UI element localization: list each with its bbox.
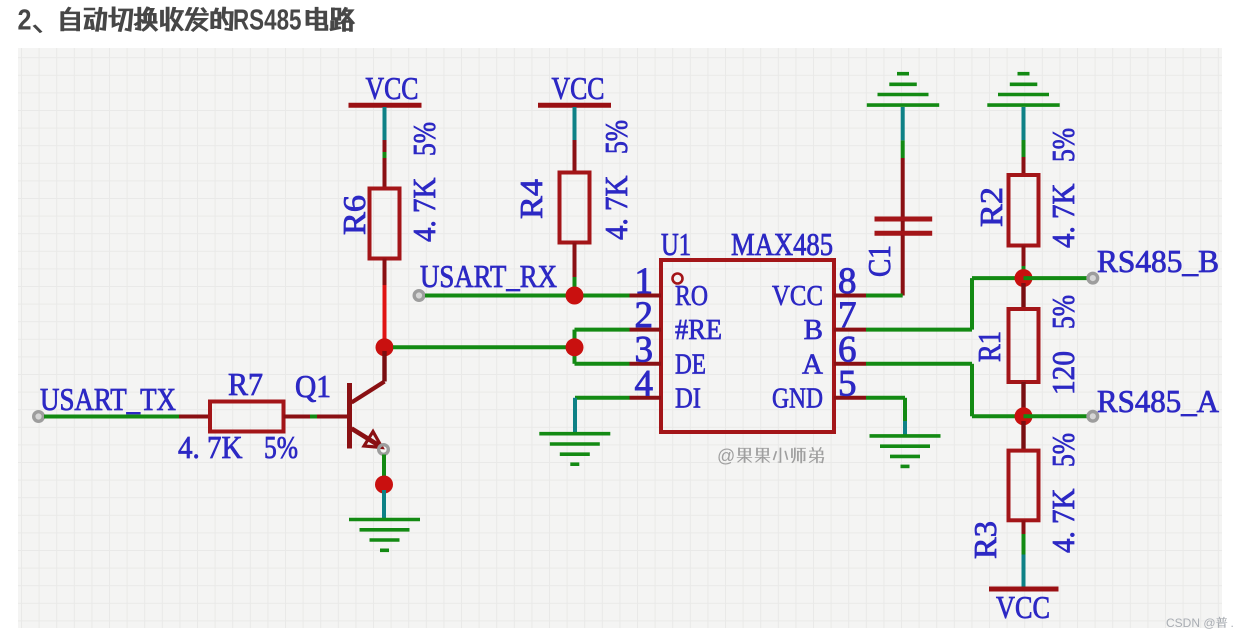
title (18, 5, 355, 37)
svg-text:USART_RX: USART_RX (420, 258, 557, 294)
wire R7 to Q1 base (310, 415, 348, 419)
port RS485_A (1088, 412, 1098, 422)
wire ground to C1 (901, 107, 905, 217)
svg-text:5%: 5% (1045, 433, 1081, 467)
wire pin 5 to ground (866, 398, 905, 435)
junction RS485_A (1015, 407, 1033, 425)
junction USART_RX / R4 (566, 287, 584, 305)
resistor R1 (971, 295, 1081, 408)
ground (above C1, inverted) (867, 74, 939, 105)
resistor R6 (336, 122, 442, 285)
power VCC symbol (R6 column) (349, 70, 422, 106)
wire pin 7 to RS485_B node (866, 278, 1024, 330)
svg-text:RS485: RS485 (233, 5, 302, 37)
pin 8 VCC (772, 261, 866, 312)
power VCC symbol (R4 column) (538, 70, 611, 106)
svg-text:VCC: VCC (772, 280, 823, 312)
ground (below pin 5) (870, 436, 941, 467)
svg-text:A: A (802, 348, 823, 380)
svg-text:GND: GND (772, 382, 823, 414)
resistor R7 (178, 366, 310, 465)
pin 7 B (804, 295, 866, 346)
pin 3 DE (630, 329, 707, 380)
watermark CSDN (1166, 616, 1234, 630)
svg-text:R2: R2 (973, 187, 1009, 227)
wire emitter to ground (375, 455, 393, 519)
svg-text:Q1: Q1 (295, 368, 331, 404)
wire pin 4 to ground (575, 398, 630, 432)
wire Q1 collector to node (382, 351, 386, 382)
wire R6 to node (bright red net) (383, 285, 387, 347)
svg-text:B: B (804, 314, 823, 346)
capacitor C1 (861, 219, 932, 296)
svg-text:U1: U1 (661, 226, 691, 262)
svg-text:RS485_A: RS485_A (1097, 383, 1219, 419)
pin 5 GND (772, 363, 866, 414)
wire pin 6 to RS485_A node (866, 364, 1024, 417)
svg-text:2: 2 (18, 5, 32, 37)
transistor Q1 (350, 382, 385, 449)
svg-text:5%: 5% (1045, 128, 1081, 162)
svg-text:DE: DE (675, 348, 706, 380)
wire R3 to VCC (1022, 534, 1026, 587)
svg-text:120: 120 (1045, 351, 1081, 395)
svg-text:USART_TX: USART_TX (40, 381, 176, 417)
power VCC symbol (bottom, inverted) (989, 589, 1059, 625)
wire node to pins 2/3 junction (393, 345, 575, 349)
ground (below pin 4) (539, 434, 610, 465)
svg-text:DI: DI (675, 382, 701, 414)
svg-text:4. 7K: 4. 7K (178, 429, 243, 465)
pin 6 A (802, 329, 866, 380)
ground (above R2, inverted) (987, 74, 1059, 105)
svg-text:MAX485: MAX485 (731, 226, 833, 262)
svg-text:5%: 5% (598, 120, 634, 154)
svg-text:C1: C1 (861, 245, 897, 277)
port USART_RX (414, 291, 424, 301)
resistor R4 (513, 120, 634, 288)
svg-text:5%: 5% (264, 429, 298, 465)
svg-text:VCC: VCC (552, 70, 605, 106)
wire USART_RX to pin 1 (425, 294, 630, 298)
svg-text:R4: R4 (513, 179, 549, 219)
wire USART_TX to R7 (44, 415, 179, 419)
svg-text:5%: 5% (406, 122, 442, 156)
svg-text:5: 5 (838, 363, 857, 404)
wire node to R1 (1021, 283, 1025, 309)
IC U1 MAX485 body (661, 260, 834, 432)
pin 2 #RE (630, 295, 723, 346)
port emitter junction (379, 445, 389, 455)
svg-text:4. 7K: 4. 7K (598, 176, 634, 241)
svg-text:RO: RO (675, 280, 708, 312)
junction RS485_B (1015, 269, 1033, 287)
wire pin2/pin3 connector (575, 330, 630, 364)
svg-text:4. 7K: 4. 7K (1045, 489, 1081, 554)
svg-text:4. 7K: 4. 7K (1045, 184, 1081, 249)
wire node to port RS485_B (1024, 276, 1088, 280)
watermark (717, 446, 824, 466)
svg-text:VCC: VCC (996, 589, 1050, 625)
svg-text:VCC: VCC (366, 70, 419, 106)
svg-text:R6: R6 (336, 195, 372, 235)
svg-text:R1: R1 (971, 331, 1007, 362)
port RS485_B (1088, 273, 1098, 283)
svg-text:5%: 5% (1045, 295, 1081, 329)
wire C1 to pin 8 (866, 294, 903, 298)
junction node at R6/Q1 collector (376, 338, 394, 356)
svg-text:4: 4 (635, 363, 654, 404)
port USART_TX (34, 412, 44, 422)
svg-text:R3: R3 (967, 521, 1003, 559)
svg-text:CSDN @: CSDN @ (1166, 616, 1216, 630)
svg-text:RS485_B: RS485_B (1097, 243, 1219, 279)
wire VCC to R4 (573, 107, 577, 173)
pin 1 RO (630, 261, 709, 312)
wire ground to R2 (1022, 107, 1026, 175)
svg-text:R7: R7 (228, 366, 263, 402)
wire node to R3 (1021, 421, 1025, 451)
resistor R2 (973, 128, 1081, 278)
junction pins 2/3 (566, 338, 584, 356)
ground (below Q1) (349, 520, 420, 551)
svg-text:#RE: #RE (675, 314, 722, 346)
svg-text:.: . (1231, 616, 1234, 630)
svg-text:@: @ (717, 446, 735, 466)
pin 4 DI (630, 363, 702, 414)
resistor R3 (967, 433, 1081, 559)
wire VCC to R6 (383, 107, 387, 189)
svg-text:4. 7K: 4. 7K (406, 178, 442, 243)
wire node to port RS485_A (1024, 414, 1088, 418)
